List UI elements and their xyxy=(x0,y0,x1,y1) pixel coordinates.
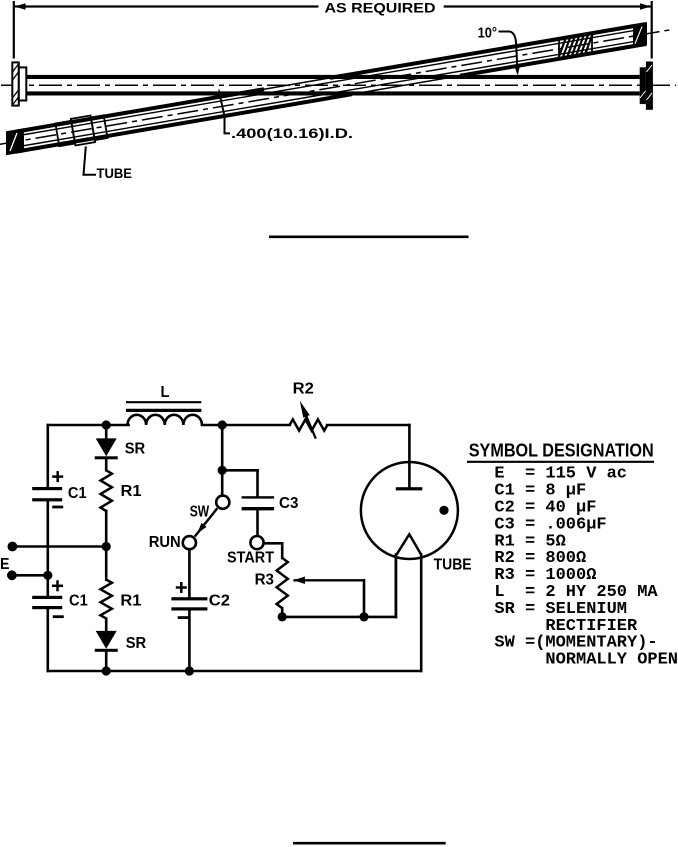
wire: SR1 anode stub xyxy=(105,425,108,439)
svg-text:R3: R3 xyxy=(255,571,274,588)
svg-text:SR: SR xyxy=(126,635,147,652)
angled tube right end cap hatched xyxy=(633,22,647,47)
label C1 (upper) xyxy=(68,485,87,502)
contact circle RUN xyxy=(183,536,196,549)
terminal dot E lower xyxy=(7,570,48,580)
angled tube lower wall xyxy=(16,44,646,152)
dimension line AS REQUIRED right segment with arrow xyxy=(444,3,651,10)
capacitor C3 xyxy=(242,496,275,510)
wire: mid junction to R1 lower xyxy=(105,547,108,580)
angled tube upper wall xyxy=(16,24,646,132)
label R1 (upper) xyxy=(121,483,142,500)
junction dot node SW/C3 xyxy=(218,466,227,475)
label SW xyxy=(190,503,210,520)
label C3 xyxy=(279,495,298,512)
svg-text:C3: C3 xyxy=(279,495,298,512)
legend row 5: R2 = 800Ω xyxy=(494,549,586,568)
C2 minus sign xyxy=(178,616,189,619)
angled tube upper bore line xyxy=(22,30,640,136)
left flange inner step xyxy=(19,67,27,100)
inductor L coil xyxy=(128,415,202,425)
terminal dot E upper xyxy=(7,542,106,552)
diode SR1 xyxy=(95,438,118,459)
rheostat R2 arrow xyxy=(300,401,316,439)
legend row 7: L = 2 HY 250 MA xyxy=(494,583,658,602)
wire: R1 to mid junction xyxy=(105,511,108,547)
wire: C3 to START xyxy=(256,510,259,536)
switch SW fixed contact circle xyxy=(216,496,229,509)
svg-text:.400(10.16)I.D.: .400(10.16)I.D. xyxy=(231,126,353,141)
junction dot node R3 bottom xyxy=(278,612,287,621)
wire: R3 bottom bus to tube filament left lead xyxy=(282,554,396,617)
junction dot node bottom C2 xyxy=(185,666,194,675)
svg-text:R2: R2 xyxy=(293,380,314,397)
label TUBE (schematic) xyxy=(434,556,472,573)
wire: top bus from R2 to tube plate drop xyxy=(327,425,409,487)
junction dot node top SW xyxy=(218,420,227,429)
dimension extension line right xyxy=(651,1,653,59)
angled tube coupling fitting boxes xyxy=(55,113,108,148)
svg-text:C1: C1 xyxy=(69,593,88,610)
svg-text:R1: R1 xyxy=(120,593,141,610)
C2 plus sign xyxy=(176,582,187,593)
tube plate electrode xyxy=(396,462,423,490)
dimension extension line left xyxy=(13,1,15,59)
dimension text AS REQUIRED xyxy=(325,0,436,15)
legend row 8: SR = SELENIUM xyxy=(494,600,627,619)
legend row 11: NORMALLY OPEN xyxy=(545,651,678,670)
svg-text:RUN: RUN xyxy=(149,534,181,551)
tube filament right lead xyxy=(420,555,423,672)
label R1 (lower) xyxy=(120,593,141,610)
wire: RUN to C2 xyxy=(188,550,191,597)
junction dot node bottom SR xyxy=(102,666,111,675)
angled tube lower bore line xyxy=(22,41,640,147)
label START xyxy=(227,550,274,567)
label L xyxy=(161,384,170,401)
R3 wiper arrow xyxy=(293,577,364,617)
wire: top bus from left corner to L xyxy=(48,424,129,427)
legend row 4: R1 = 5Ω xyxy=(494,532,565,551)
label 10 degrees with leader arrow xyxy=(478,25,521,76)
label RUN xyxy=(149,534,181,551)
legend row 3: C3 = .006μF xyxy=(494,515,606,534)
label R2 xyxy=(293,380,314,397)
svg-text:SW: SW xyxy=(190,503,210,520)
switch SW blade with arrow xyxy=(195,508,218,536)
svg-text:START: START xyxy=(227,550,274,567)
C1 upper plus sign xyxy=(52,471,63,482)
tube grid dot xyxy=(439,506,448,515)
svg-text:10°: 10° xyxy=(478,25,498,42)
dimension line AS REQUIRED left segment with arrow xyxy=(15,3,319,10)
figure caption underline (bottom) xyxy=(293,842,446,845)
left flange outer plate xyxy=(12,62,18,105)
resistor R1 (upper) zigzag xyxy=(101,470,112,511)
figure caption underline (middle) xyxy=(269,236,469,239)
wire: C2 to bottom bus xyxy=(188,611,191,672)
junction dot node E lower xyxy=(43,571,52,580)
electron tube envelope circle xyxy=(361,462,458,559)
wire: SW branch from top bus xyxy=(221,425,224,495)
svg-text:=: = xyxy=(525,634,535,653)
svg-text:SR: SR xyxy=(125,441,146,458)
svg-text:E: E xyxy=(0,556,10,573)
svg-text:C1: C1 xyxy=(68,485,87,502)
tube filament V xyxy=(396,534,421,555)
label C2 xyxy=(209,593,230,610)
junction dot node wiper xyxy=(359,612,368,621)
C1 upper minus sign xyxy=(52,506,63,509)
right flange inner step xyxy=(640,67,646,104)
label R3 xyxy=(255,571,274,588)
contact circle START xyxy=(250,536,263,549)
label C1 (lower) xyxy=(69,593,88,610)
legend row 10: SW = (MOMENTARY)- xyxy=(494,634,657,653)
wire: SR1 to R1 xyxy=(105,459,108,470)
wire: left vertical rail xyxy=(46,425,49,671)
legend row 9: RECTIFIER xyxy=(545,617,638,636)
resistor R1 (lower) zigzag xyxy=(101,580,112,619)
svg-text:=: = xyxy=(525,600,535,619)
angled tube hatched braze section xyxy=(559,34,593,59)
label SR (lower) xyxy=(126,635,147,652)
svg-text:TUBE: TUBE xyxy=(97,165,133,181)
svg-text:TUBE: TUBE xyxy=(434,556,472,573)
legend row 0: E = 115 V ac xyxy=(494,465,627,484)
diode SR2 xyxy=(95,631,118,652)
svg-text:AS REQUIRED: AS REQUIRED xyxy=(325,0,436,15)
angled tube left end cap hatched xyxy=(6,128,24,155)
capacitor C1 (upper) xyxy=(32,487,62,501)
C1 lower plus sign xyxy=(52,580,63,591)
inductor L double bar (core) xyxy=(126,402,201,410)
horizontal pipe top wall xyxy=(26,75,639,79)
wire: R1 lower to SR2 xyxy=(105,619,108,631)
legend row 2: C2 = 40 μF xyxy=(494,499,596,518)
svg-text:SYMBOL DESIGNATION: SYMBOL DESIGNATION xyxy=(469,441,654,461)
label SR (upper) xyxy=(125,441,146,458)
tube filament left lead xyxy=(395,555,398,617)
label E xyxy=(0,556,10,573)
right flange outer plate xyxy=(646,62,653,110)
potentiometer R3 zigzag xyxy=(277,558,288,608)
horizontal pipe centerline xyxy=(1,84,676,86)
wire: START to R3 xyxy=(265,543,283,558)
legend row 1: C1 = 8 μF xyxy=(494,482,586,501)
wire: bottom bus xyxy=(48,670,421,673)
svg-text:L: L xyxy=(161,384,170,401)
legend header SYMBOL DESIGNATION xyxy=(467,441,654,462)
rheostat R2 zigzag xyxy=(290,419,328,430)
angled tube centerline xyxy=(0,30,672,145)
junction dot node top-left xyxy=(102,420,111,429)
label TUBE with leader xyxy=(84,147,133,182)
wire: R3 bottom xyxy=(281,608,284,617)
wire: SR2 to bottom bus xyxy=(105,652,108,671)
capacitor C1 (lower) xyxy=(32,596,62,609)
svg-text:SW: SW xyxy=(494,634,515,653)
svg-text:SR: SR xyxy=(494,600,515,619)
label .400 I.D. with leader arrow xyxy=(218,89,353,141)
horizontal pipe bottom wall xyxy=(26,91,639,95)
svg-text:C2: C2 xyxy=(209,593,230,610)
junction dot node mid xyxy=(102,542,111,551)
svg-text:NORMALLY OPEN: NORMALLY OPEN xyxy=(545,651,678,670)
legend row 6: R3 = 1000Ω xyxy=(494,566,596,585)
wire: C3 branch xyxy=(222,470,257,497)
svg-text:R1: R1 xyxy=(121,483,142,500)
C1 lower minus sign xyxy=(53,615,64,618)
wire: top bus from L to R2 xyxy=(202,424,290,427)
capacitor C2 xyxy=(171,597,207,610)
